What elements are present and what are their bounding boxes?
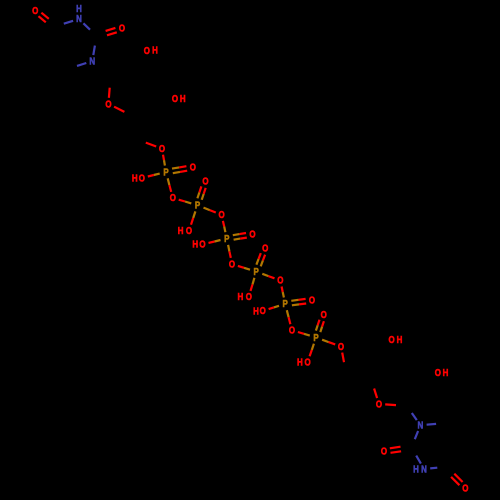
P5=O double bond: [292, 303, 299, 306]
C4=O4 double bond uracil1: [41, 13, 48, 19]
bond P4-OH: [253, 278, 255, 285]
bond ring-O to C1 sugar1: [108, 88, 111, 98]
svg-text:H: H: [297, 357, 303, 368]
svg-text:P: P: [313, 332, 318, 343]
svg-text:O: O: [321, 309, 327, 320]
bond P2-OH: [193, 211, 195, 218]
bond O-P2 bridge: [179, 200, 185, 202]
bond N3-C2 uracil1: [83, 23, 90, 29]
bond C1-N1 glycosidic sugar2: [412, 413, 417, 420]
bond O-P3 bridge: [223, 221, 224, 227]
svg-text:P: P: [254, 266, 259, 277]
svg-text:P: P: [283, 298, 288, 309]
svg-text:O: O: [172, 93, 178, 104]
bond N1-C2 uracil2: [415, 431, 418, 439]
svg-text:O: O: [190, 162, 196, 173]
svg-text:O: O: [170, 192, 176, 203]
svg-text:H: H: [132, 173, 138, 184]
bond P4-O bridge: [262, 274, 268, 276]
bond N3-C4 uracil2: [430, 467, 437, 470]
bond ring-O to C4 sugar1: [114, 107, 124, 112]
P1=O double bond: [173, 172, 180, 173]
bond N1-C6 uracil1: [77, 63, 86, 66]
bond P3-O bridge: [228, 245, 229, 252]
svg-text:N: N: [76, 13, 82, 24]
svg-text:O: O: [105, 99, 111, 110]
svg-text:O: O: [309, 295, 315, 306]
svg-text:O: O: [262, 243, 268, 254]
svg-text:H: H: [397, 334, 403, 345]
svg-text:H: H: [192, 239, 198, 250]
svg-text:O: O: [139, 173, 145, 184]
svg-text:O: O: [246, 291, 252, 302]
bond P1-OH: [154, 174, 160, 175]
C4=O4 double bond uracil2: [451, 477, 459, 485]
bond O5-C5 sugar2: [342, 353, 344, 363]
P6=O double bond: [320, 327, 322, 333]
svg-text:O: O: [376, 399, 382, 410]
svg-text:O: O: [202, 176, 208, 187]
svg-text:P: P: [163, 167, 168, 178]
svg-text:H: H: [178, 225, 184, 236]
svg-text:N: N: [89, 56, 95, 67]
svg-text:O: O: [119, 23, 125, 34]
svg-text:O: O: [305, 357, 311, 368]
svg-text:O: O: [186, 225, 192, 236]
P3=O double bond: [234, 239, 241, 240]
svg-text:O: O: [229, 259, 235, 270]
bond P2-O bridge: [204, 208, 210, 211]
bond P5-O bridge: [287, 310, 289, 317]
svg-text:O: O: [277, 275, 283, 286]
bond N3-C2 uracil2: [416, 456, 421, 464]
bond P6-OH: [312, 344, 314, 350]
svg-text:O: O: [199, 239, 205, 250]
svg-text:H: H: [180, 93, 186, 104]
svg-text:O: O: [260, 305, 266, 316]
svg-text:O: O: [219, 209, 225, 220]
bond ring-O to C4 sugar2: [374, 389, 377, 399]
bond O5-P1: [163, 155, 164, 161]
svg-text:O: O: [32, 5, 38, 16]
bond O-P6 bridge: [298, 332, 304, 334]
P4=O double bond: [261, 261, 263, 267]
P2=O double bond: [202, 194, 204, 200]
bond P1-O bridge: [168, 178, 170, 185]
svg-text:P: P: [224, 233, 229, 244]
bond O-P5 bridge: [282, 287, 283, 293]
bond ring-O to C1 sugar2: [385, 403, 396, 406]
bond C5-O5 ester sugar1: [146, 143, 156, 147]
svg-text:H: H: [152, 45, 158, 56]
svg-text:O: O: [249, 229, 255, 240]
svg-text:O: O: [462, 483, 468, 494]
bond P3-OH: [215, 240, 221, 242]
svg-text:P: P: [195, 200, 200, 211]
bond N3-C4 uracil1: [64, 21, 73, 24]
svg-text:H: H: [443, 367, 449, 378]
bond N1-C2 uracil1: [93, 46, 95, 56]
svg-text:O: O: [144, 45, 150, 56]
svg-text:O: O: [381, 446, 387, 457]
svg-text:O: O: [435, 367, 441, 378]
svg-text:O: O: [338, 341, 344, 352]
svg-text:O: O: [289, 325, 295, 336]
svg-text:O: O: [159, 143, 165, 154]
bond P6-O5 ester: [322, 340, 329, 342]
bond O-P4 bridge: [238, 266, 244, 268]
bond P5-OH: [274, 306, 279, 308]
svg-text:N: N: [418, 420, 424, 431]
svg-text:H: H: [238, 291, 244, 302]
C2=O2 double bond uracil2: [390, 447, 401, 449]
svg-text:H: H: [413, 464, 419, 475]
C2=O2 double bond uracil1: [107, 32, 117, 35]
svg-text:N: N: [421, 464, 427, 475]
bond N1-C6 uracil2: [427, 423, 437, 426]
svg-text:H: H: [253, 306, 259, 317]
svg-text:O: O: [389, 334, 395, 345]
